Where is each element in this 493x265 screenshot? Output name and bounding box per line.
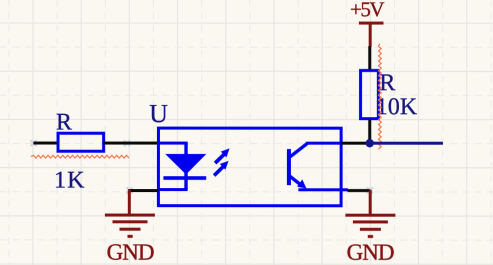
svg-text:10K: 10K [376, 94, 418, 120]
power port +5V bar symbol [359, 23, 384, 47]
compile-error squiggle on +5V net [378, 44, 381, 149]
label 10K [376, 94, 418, 120]
resistor R1 1K [58, 133, 104, 151]
transistor Q1 collector [289, 143, 341, 157]
ground symbol right [345, 190, 395, 237]
LED D1 triangle [165, 154, 206, 175]
wire R1 to U1 pin1 [103, 142, 158, 145]
wire left stub to R1 [33, 142, 57, 145]
label GND right [347, 240, 394, 265]
node marker right GND corner [367, 187, 373, 193]
node A junction dot [366, 139, 374, 147]
label R (R2) [379, 70, 395, 96]
label R (R1) [56, 109, 72, 135]
pin 1 inner lead (anode) [159, 142, 188, 145]
transistor Q1 base bar [287, 149, 291, 185]
ground symbol left [105, 190, 155, 237]
optocoupler U1 body box [158, 128, 341, 206]
pin 2 inner lead (cathode) [159, 188, 188, 191]
svg-text:+5V: +5V [350, 0, 384, 21]
node marker left wire end [31, 140, 37, 146]
compile-error squiggle under R1 net [31, 155, 129, 158]
wire R2 to node A [368, 120, 371, 143]
svg-text:GND: GND [347, 240, 394, 265]
wire U1 collector pin to node A [341, 142, 367, 145]
svg-text:U: U [149, 99, 168, 128]
svg-text:1K: 1K [54, 167, 86, 193]
wire node A to right (net stub) [370, 142, 443, 145]
light arrow 1 [215, 148, 229, 163]
svg-text:R: R [56, 109, 72, 135]
wire +5V to R2 [368, 46, 371, 70]
resistor R2 10K [361, 70, 379, 118]
wire U1 emitter pin to GND corner [347, 189, 370, 192]
node marker mid wire [124, 140, 130, 146]
node marker left GND corner [126, 187, 132, 193]
label U (optocoupler designator) [149, 99, 168, 128]
LED D1 cathode bar [163, 176, 206, 180]
light arrow 2 [214, 161, 228, 176]
svg-text:GND: GND [107, 239, 154, 264]
wire U1 cathode pin to GND corner [128, 189, 158, 192]
label GND left [107, 239, 154, 264]
power port +5V label [350, 0, 384, 21]
label 1K [54, 167, 86, 193]
LED D1 stem [184, 143, 187, 189]
transistor Q1 emitter with arrow [289, 176, 348, 190]
